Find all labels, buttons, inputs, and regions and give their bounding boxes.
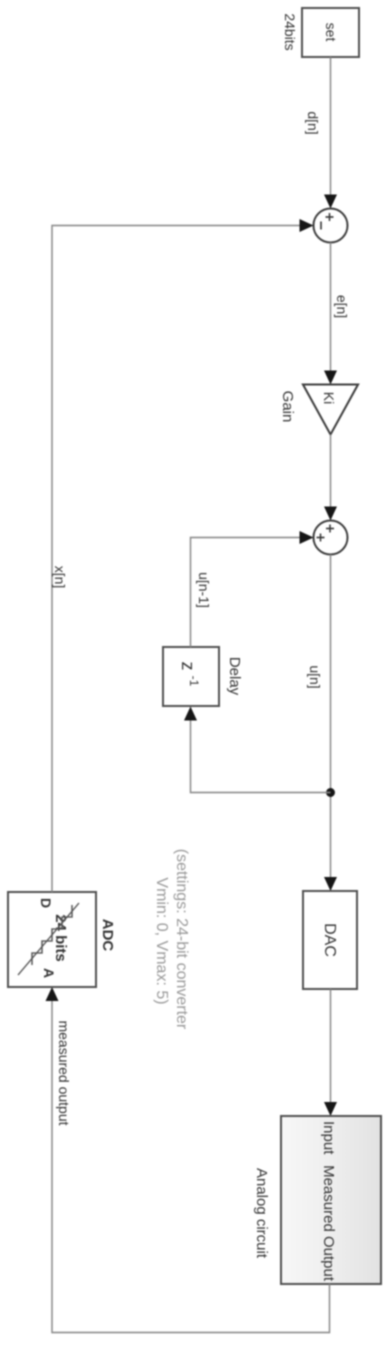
set block (constant source)	[302, 8, 359, 57]
DAC block	[303, 891, 357, 989]
svg-text:Ki: Ki	[321, 392, 337, 404]
svg-text:u[n-1]: u[n-1]	[196, 572, 212, 608]
svg-text:Input: Input	[320, 1121, 337, 1155]
svg-text:measured output: measured output	[56, 1020, 72, 1125]
arrowhead into delay right side	[184, 707, 197, 721]
wire u[n]: sum2 to DAC with junction	[330, 555, 332, 879]
delay block z^-1	[163, 647, 219, 706]
svg-text:Analog circuit: Analog circuit	[253, 1168, 270, 1259]
arrowhead into sum1 bottom	[300, 219, 314, 232]
svg-text:d[n]: d[n]	[305, 111, 321, 134]
svg-text:set: set	[323, 23, 339, 42]
svg-text:ADC: ADC	[99, 919, 116, 952]
gain block Ki (triangle)	[303, 385, 358, 435]
wire e[n]: sum1 to gain	[330, 243, 332, 373]
svg-text:Measured Output: Measured Output	[320, 1165, 337, 1282]
svg-text:e[n]: e[n]	[334, 295, 350, 318]
arrowhead into sum2 bottom	[300, 531, 314, 544]
wire u[n-1]: delay out to sum2 bottom	[191, 538, 301, 648]
sum junction sum1	[314, 209, 348, 243]
wire: junction down to delay row	[191, 720, 331, 793]
wire: analog circuit out, right and down and along bottom to ADC	[52, 1001, 330, 1333]
ADC block	[8, 892, 96, 987]
svg-text:24bits: 24bits	[282, 13, 298, 50]
svg-text:DAC: DAC	[321, 923, 338, 957]
svg-text:x[n]: x[n]	[52, 566, 68, 589]
arrowhead into sum1 left	[324, 195, 337, 209]
arrowhead into DAC	[324, 877, 337, 891]
svg-text:z: z	[178, 662, 198, 671]
wire feedback x[n]: ADC out to sum1 bottom	[52, 226, 300, 893]
svg-text:-1: -1	[187, 676, 201, 687]
sum junction sum2	[314, 521, 348, 555]
svg-text:A: A	[41, 968, 57, 978]
svg-text:D: D	[38, 898, 54, 908]
svg-text:Vmin: 0, Vmax: 5): Vmin: 0, Vmax: 5)	[153, 877, 170, 1004]
wire gain to sum2	[330, 435, 332, 509]
arrowhead into gain	[324, 371, 337, 385]
svg-text:Delay: Delay	[226, 657, 243, 696]
svg-text:24 bits: 24 bits	[52, 914, 69, 962]
arrowhead into analog circuit	[324, 1102, 337, 1116]
analog circuit subsystem block	[281, 1116, 381, 1284]
junction node dot	[326, 788, 335, 797]
svg-text:(settings: 24-bit converter: (settings: 24-bit converter	[173, 849, 190, 1030]
svg-text:u[n]: u[n]	[307, 665, 323, 688]
arrowhead into ADC right side	[46, 987, 59, 1001]
svg-text:Gain: Gain	[279, 391, 296, 423]
wire DAC to analog circuit	[330, 989, 332, 1103]
wire d[n]: set to sum1	[330, 57, 332, 196]
arrowhead into sum2 left	[324, 507, 337, 521]
